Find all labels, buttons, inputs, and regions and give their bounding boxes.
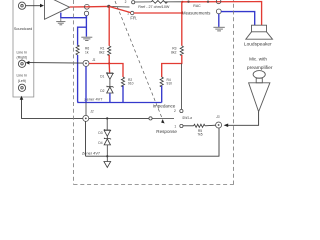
wire FR common to pos1 (red) <box>109 6 131 12</box>
wire pos2 to Rref (gray) <box>135 1 151 3</box>
ground below op-amp <box>60 18 62 21</box>
wire J2 down to ground bus <box>85 121 87 156</box>
wire R6 to bus (blue) <box>77 55 79 102</box>
junction D3 chain <box>106 117 108 119</box>
connector J1 <box>83 60 89 66</box>
wire op-amp feedback (blue) <box>61 13 87 45</box>
node R1/J1 junction <box>108 62 110 64</box>
soundcard panel <box>13 0 34 97</box>
wire R5 to J3 <box>205 124 216 127</box>
svg-text:(Left): (Left) <box>18 79 26 83</box>
line out connector <box>18 2 25 9</box>
svg-text:FR.: FR. <box>130 15 137 20</box>
plug dot B <box>207 1 209 3</box>
svg-text:8k2: 8k2 <box>171 51 176 55</box>
SW1-a pos1 contact <box>180 124 183 127</box>
junction FR pos1 line <box>181 12 183 14</box>
svg-text:D1: D1 <box>100 75 104 79</box>
wire R1 to node (red) <box>108 55 110 64</box>
resistor Rref <box>151 1 167 4</box>
wire line-out to amplifier with arrow <box>26 4 44 8</box>
svg-text:J3: J3 <box>216 115 220 119</box>
svg-text:7k5: 7k5 <box>197 133 202 137</box>
svg-text:Rref - 27 ohm/10W: Rref - 27 ohm/10W <box>138 5 170 9</box>
wire J3 down to ground bus <box>86 128 220 156</box>
svg-text:J2: J2 <box>90 109 94 113</box>
svg-text:1: 1 <box>174 125 176 129</box>
microphone <box>249 71 270 112</box>
wire Rref to junction (gray) <box>165 1 183 3</box>
arrow into J3 <box>224 124 229 128</box>
line in right connector <box>18 60 25 67</box>
resistor R6 <box>76 44 89 55</box>
op-amp U1 power amplifier <box>45 0 70 19</box>
wire terminal to speaker (blue) <box>221 12 255 26</box>
wire pos1 to R5 <box>183 125 194 127</box>
svg-text:Mic. with: Mic. with <box>249 56 267 61</box>
wire mic to J3 <box>228 112 259 126</box>
diode D4 <box>104 138 111 145</box>
svg-text:J1: J1 <box>92 58 96 62</box>
svg-text:Line In: Line In <box>17 74 28 78</box>
svg-text:(Right): (Right) <box>17 56 28 60</box>
line in left connector <box>18 84 25 91</box>
impedance sense wire (gray) <box>180 64 182 110</box>
junction top <box>181 1 183 3</box>
FR switch pos1 contact <box>131 11 134 14</box>
wire J1 to R2 (red) <box>89 64 123 78</box>
svg-text:Measurements: Measurements <box>182 11 210 16</box>
ground at measurement terminal <box>213 27 224 31</box>
svg-text:Impedance: Impedance <box>153 104 176 109</box>
wire terminal to ground (blue) <box>218 14 220 27</box>
plug dot A <box>187 1 189 3</box>
dashed box <box>74 0 234 185</box>
wire line-in-left to J2 <box>20 96 83 119</box>
connector J2 <box>83 115 89 121</box>
gang dashed line <box>115 1 164 123</box>
svg-text:D2: D2 <box>100 89 104 93</box>
wire to FR switch (red) <box>87 5 109 7</box>
svg-text:Zener 4V7: Zener 4V7 <box>82 150 100 155</box>
resistor R4 <box>160 77 172 87</box>
wire D2 to bus (blue) <box>109 93 111 102</box>
gang arrow <box>161 120 165 124</box>
SW1-a pos2 contact <box>180 109 183 112</box>
diode D3 <box>104 129 111 136</box>
svg-text:SW1-a: SW1-a <box>182 116 192 120</box>
wire D3-D4 <box>106 136 108 138</box>
FR switch common node <box>107 5 110 8</box>
amp return connector bottom <box>84 11 88 15</box>
svg-text:910: 910 <box>128 82 134 86</box>
resistor R1 <box>99 46 111 56</box>
wire pos1 to right chain (red) <box>134 12 182 14</box>
amp output connector top <box>85 4 90 9</box>
wire J2 to switch common <box>89 117 149 119</box>
measurement terminal bottom <box>216 9 221 14</box>
wire D4 to ground bus <box>106 145 108 162</box>
ground triangle <box>104 162 111 168</box>
wire line-in-right to J1 <box>26 61 83 65</box>
switch SW1-a common <box>149 117 152 120</box>
wire R2 to bus (blue) <box>122 86 124 103</box>
red chain right: top to R3 <box>181 2 183 46</box>
svg-text:2: 2 <box>174 109 176 113</box>
diode D1 <box>107 72 114 79</box>
wire op-amp output (red) <box>70 6 87 8</box>
red vertical R1 chain top <box>108 6 110 45</box>
svg-text:Zener 4V7: Zener 4V7 <box>84 97 102 102</box>
svg-text:Soundcard: Soundcard <box>14 27 32 31</box>
diode D2 <box>107 86 114 93</box>
stub bus to J2 (gray) <box>85 103 87 116</box>
svg-text:Line In: Line In <box>17 50 28 54</box>
resistor R2 <box>121 77 133 87</box>
top line to loudspeaker (red) <box>182 2 261 26</box>
FR switch pos2 contact <box>132 1 135 4</box>
wire R4 to bus (blue) <box>161 86 163 103</box>
resistor R5 <box>194 124 206 127</box>
junction ground bus <box>106 155 108 157</box>
svg-text:RAC: RAC <box>193 4 201 8</box>
wire R3 to corner, to R4 (red) <box>162 55 182 77</box>
svg-text:preamplifier: preamplifier <box>247 65 273 71</box>
svg-text:Loudspeaker: Loudspeaker <box>244 41 272 47</box>
connector J3 <box>216 122 222 128</box>
blue bus <box>78 101 162 103</box>
svg-text:D4: D4 <box>98 141 102 145</box>
resistor R3 <box>171 46 183 56</box>
SW1-a lever <box>152 117 174 119</box>
svg-text:2: 2 <box>125 0 127 4</box>
svg-text:1k: 1k <box>85 51 89 55</box>
ground below return connector <box>81 37 92 40</box>
wire J1 to bus (blue) <box>85 66 87 102</box>
svg-text:8k2: 8k2 <box>99 51 104 55</box>
svg-text:910: 910 <box>167 82 173 86</box>
svg-text:D3: D3 <box>98 131 102 135</box>
wire junction to D3 <box>106 118 108 129</box>
wire D1-D2 <box>109 79 111 86</box>
measurement terminal top <box>216 0 221 4</box>
svg-text:Response: Response <box>156 129 177 134</box>
FR switch lever <box>109 6 130 9</box>
wire node to D1 (red) <box>108 64 110 73</box>
loudspeaker <box>246 25 273 39</box>
